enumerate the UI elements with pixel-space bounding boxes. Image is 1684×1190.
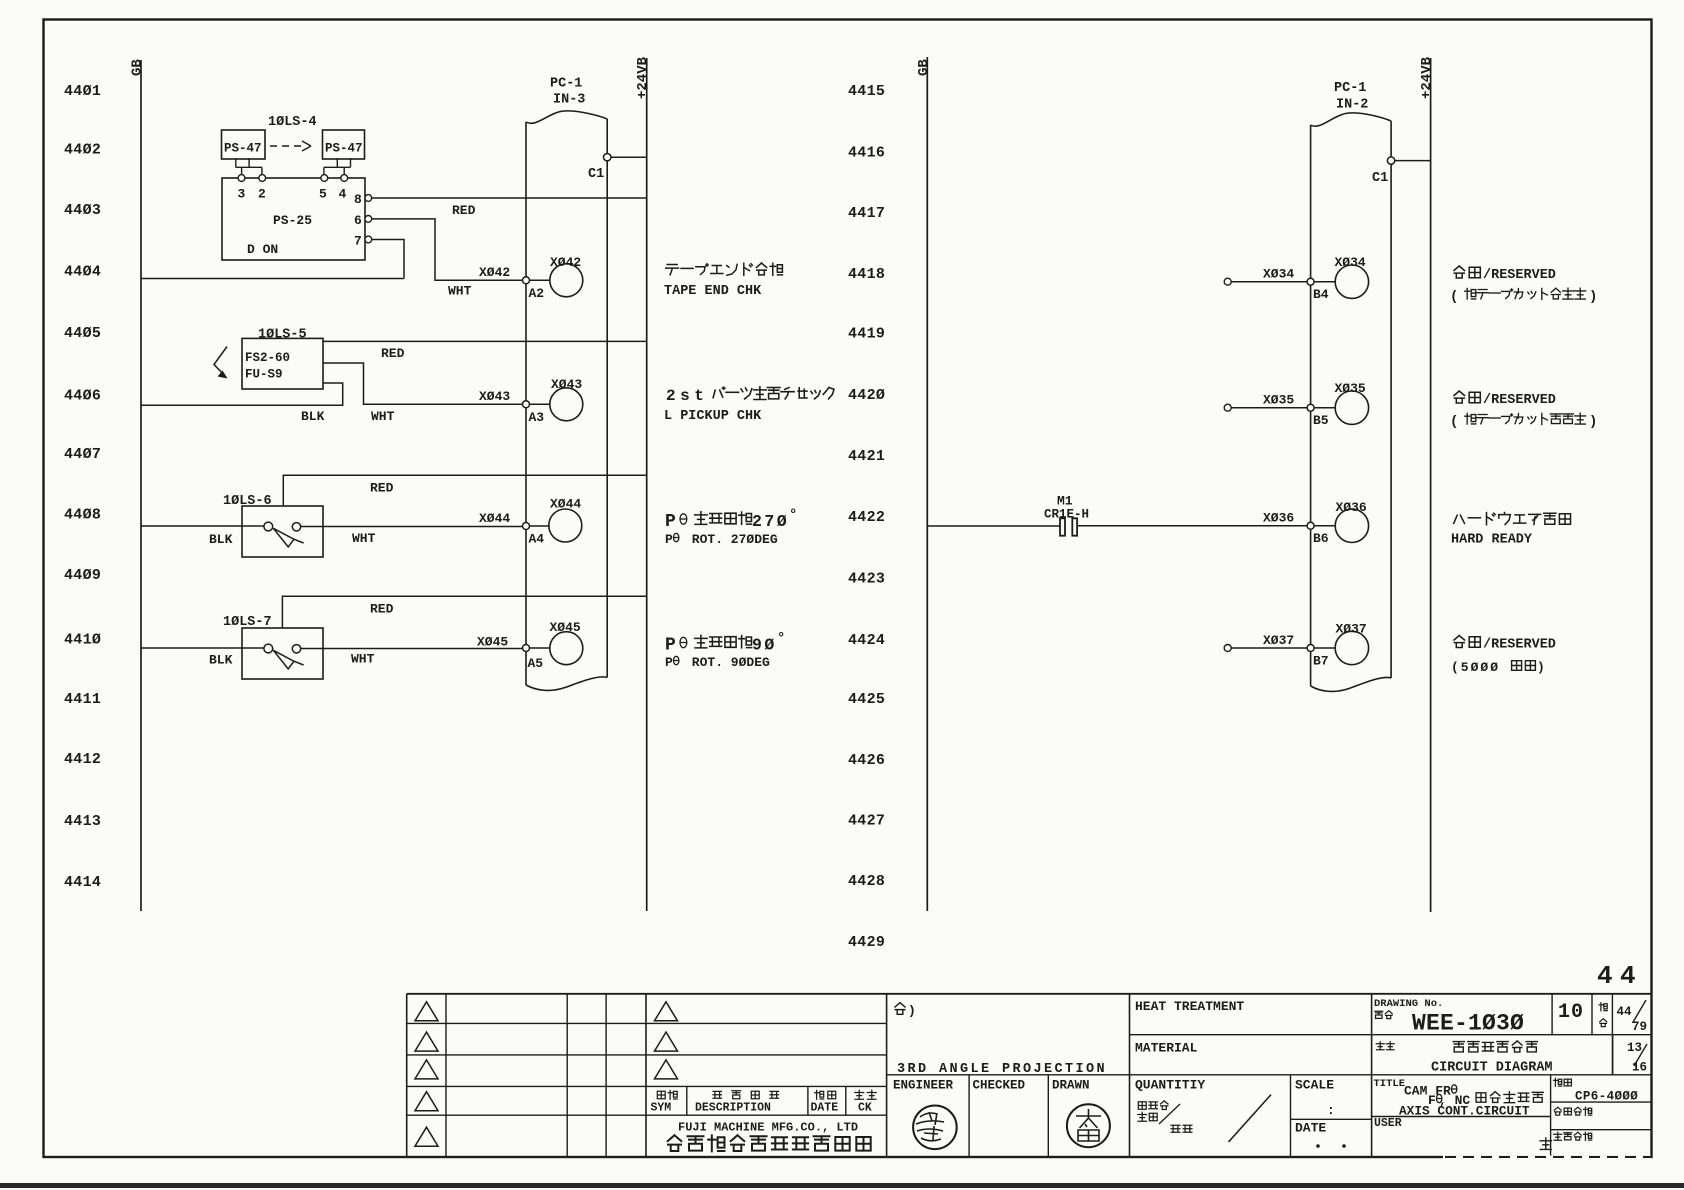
svg-text:FU-S9: FU-S9 — [245, 368, 283, 382]
indicator lamp X044 — [549, 509, 582, 542]
svg-text:16: 16 — [1632, 1061, 1647, 1075]
svg-text:ROT. 27ØDEG: ROT. 27ØDEG — [684, 532, 778, 547]
svg-text:TITLE: TITLE — [1374, 1078, 1406, 1090]
svg-text:4425: 4425 — [848, 691, 885, 708]
pin A2 on IN-3 — [523, 277, 530, 284]
wire contact M1 to pin B6 / indicator X036 — [1077, 525, 1307, 527]
svg-text:IN-2: IN-2 — [1336, 98, 1368, 113]
svg-text:CIRCUIT DIAGRAM: CIRCUIT DIAGRAM — [1431, 1061, 1553, 1076]
pin 3 of PS-25 — [238, 175, 245, 182]
svg-text:M1: M1 — [1057, 494, 1073, 509]
svg-text:13: 13 — [1627, 1041, 1642, 1055]
svg-text:8: 8 — [354, 192, 362, 207]
svg-text:B6: B6 — [1313, 531, 1329, 546]
svg-text:XØ45: XØ45 — [550, 620, 581, 635]
svg-text:27Ø: 27Ø — [752, 512, 789, 531]
pin C1 on IN-3 — [604, 154, 611, 161]
svg-text:D ON: D ON — [247, 242, 278, 257]
relay unit PS-25 box — [222, 178, 365, 260]
svg-text:WHT: WHT — [448, 284, 472, 299]
svg-text:XØ37: XØ37 — [1336, 622, 1367, 637]
svg-text:DRAWING No.: DRAWING No. — [1374, 998, 1443, 1010]
wire 10LS-5 to +24VB (RED) rung 4405 — [323, 340, 647, 342]
svg-text:IN-3: IN-3 — [553, 93, 585, 108]
svg-text:P: P — [665, 655, 673, 670]
annotation reserved (4418) JP — [1454, 266, 1465, 278]
svg-text:10: 10 — [1558, 1001, 1584, 1024]
svg-text:6: 6 — [354, 213, 362, 228]
svg-text:C1: C1 — [1372, 171, 1388, 186]
svg-text:1ØLS-5: 1ØLS-5 — [258, 328, 307, 343]
svg-text:44Ø1: 44Ø1 — [64, 83, 101, 100]
svg-text:4412: 4412 — [64, 751, 101, 768]
svg-text:44Ø4: 44Ø4 — [64, 264, 101, 281]
wire pin8 to +24VB (RED) — [372, 197, 647, 199]
svg-text:4429: 4429 — [848, 934, 885, 951]
engineer stamp — [913, 1106, 957, 1150]
svg-text:XØ43: XØ43 — [551, 377, 582, 392]
svg-text:XØ35: XØ35 — [1335, 381, 1366, 396]
svg-text:WHT: WHT — [351, 652, 375, 667]
svg-text:GB: GB — [130, 59, 146, 76]
svg-text:DESCRIPTION: DESCRIPTION — [695, 1102, 771, 1115]
svg-text:441Ø: 441Ø — [64, 632, 101, 649]
svg-text:XØ44: XØ44 — [550, 497, 581, 512]
svg-text:WHT: WHT — [352, 531, 376, 546]
svg-text:QUANTITIY: QUANTITIY — [1135, 1078, 1205, 1093]
svg-text:(: ( — [1450, 414, 1458, 430]
svg-text:B5: B5 — [1313, 413, 1329, 428]
svg-text:PC-1: PC-1 — [1334, 81, 1366, 96]
wire rung 4406 BLK from GB — [141, 383, 343, 405]
svg-text:44: 44 — [1617, 1005, 1633, 1019]
cam actuator arrow for 10LS-5 — [214, 347, 227, 378]
svg-text:DATE: DATE — [811, 1102, 839, 1115]
svg-text:B4: B4 — [1313, 287, 1329, 302]
svg-text:DRAWN: DRAWN — [1052, 1079, 1090, 1093]
svg-text:XØ36: XØ36 — [1336, 500, 1367, 515]
svg-text:4: 4 — [339, 187, 347, 202]
svg-text:CHECKED: CHECKED — [973, 1079, 1026, 1093]
quantity JP kosuu — [1138, 1112, 1147, 1121]
svg-text:(: ( — [1450, 289, 1458, 305]
svg-text:4: 4 — [1597, 961, 1613, 991]
net GB middle bus — [926, 57, 928, 911]
bunrui bangou JP — [1554, 1107, 1561, 1115]
wire rung 4404 from GB — [141, 278, 404, 280]
svg-text:ENGINEER: ENGINEER — [893, 1079, 954, 1093]
svg-text:): ) — [1589, 414, 1597, 430]
svg-text:HEAT TREATMENT: HEAT TREATMENT — [1135, 999, 1244, 1014]
svg-text:44Ø2: 44Ø2 — [64, 142, 101, 159]
svg-text:XØ42: XØ42 — [550, 255, 581, 270]
svg-text:4411: 4411 — [64, 691, 101, 708]
pin A3 on IN-3 — [523, 401, 530, 408]
svg-text:): ) — [908, 1004, 916, 1019]
svg-text:CP6-4ØØØ: CP6-4ØØØ — [1575, 1090, 1638, 1104]
svg-text:4417: 4417 — [848, 205, 885, 222]
PS-47 right connector tab — [324, 158, 351, 174]
limit switch PS-47 (right) — [323, 130, 365, 159]
quantity big slash — [1229, 1095, 1272, 1142]
indicator lamp X042 — [550, 264, 583, 297]
svg-text:/RESERVED: /RESERVED — [1483, 393, 1556, 408]
rev header DESCRIPTION (JP+EN) — [713, 1091, 722, 1098]
pin A5 on IN-3 — [523, 645, 530, 652]
annotation reserved (4420) JP — [1454, 391, 1465, 403]
svg-text:B7: B7 — [1313, 654, 1329, 669]
limit switch PS-47 (left) — [222, 130, 266, 159]
rev header CK (JP+EN) — [855, 1090, 864, 1099]
kishu cell JP + CP6-4000 — [1554, 1078, 1562, 1086]
net GB left bus — [140, 60, 142, 911]
pin 5 of PS-25 — [321, 175, 328, 182]
svg-text:FUJI MACHINE MFG.CO., LTD: FUJI MACHINE MFG.CO., LTD — [678, 1121, 858, 1135]
svg-text:GB: GB — [916, 59, 932, 76]
svg-text:XØ34: XØ34 — [1263, 267, 1294, 282]
svg-text:4414: 4414 — [64, 874, 101, 891]
svg-text:442Ø: 442Ø — [848, 387, 885, 404]
wire 10LS-5 WHT to X043 — [323, 363, 523, 404]
svg-text:SYM: SYM — [651, 1102, 672, 1115]
svg-text:4423: 4423 — [848, 571, 885, 588]
svg-text:4: 4 — [1620, 961, 1636, 991]
svg-text:CR1E-H: CR1E-H — [1044, 508, 1089, 522]
revision triangles column A — [415, 1002, 438, 1021]
title JP denki kairo senzu — [1453, 1042, 1464, 1052]
wire pin7 down to rung 4404 — [372, 240, 404, 279]
svg-text:2: 2 — [258, 187, 266, 202]
svg-text:RED: RED — [370, 602, 394, 617]
svg-text:XØ45: XØ45 — [477, 635, 508, 650]
contact M1 CR1E-H — [1060, 518, 1065, 535]
svg-text:L PICKUP CHK: L PICKUP CHK — [664, 409, 762, 424]
pin C1 on IN-2 — [1387, 157, 1394, 164]
title block grid — [407, 993, 1652, 995]
svg-text:3: 3 — [238, 187, 246, 202]
svg-text:BLK: BLK — [209, 532, 233, 547]
wire A3 to indicator X043 — [530, 403, 550, 405]
wire A5 to indicator X045 — [530, 647, 550, 649]
svg-text:XØ37: XØ37 — [1263, 633, 1294, 648]
svg-text:9Ø: 9Ø — [752, 636, 777, 655]
drawn stamp — [1067, 1104, 1110, 1147]
connector PC-1 IN-2 body — [1311, 113, 1392, 692]
svg-text:DATE: DATE — [1295, 1121, 1326, 1136]
scan artifact: dashed bottom border right — [1443, 1156, 1651, 1159]
indicator lamp X045 — [550, 632, 583, 665]
svg-text:P: P — [665, 512, 676, 532]
svg-text:44Ø3: 44Ø3 — [64, 202, 101, 219]
svg-text:°: ° — [777, 631, 785, 647]
svg-text:(5ØØØ: (5ØØØ — [1451, 660, 1500, 675]
svg-text:USER: USER — [1374, 1117, 1402, 1130]
svg-text:44Ø7: 44Ø7 — [64, 446, 101, 463]
svg-text:4421: 4421 — [848, 448, 885, 465]
wire A2 to indicator X042 — [530, 279, 550, 281]
svg-text:XØ35: XØ35 — [1263, 393, 1294, 408]
svg-text:/RESERVED: /RESERVED — [1483, 638, 1556, 653]
wire / pin B4 / indicator lamp X034 — [1224, 278, 1231, 285]
wire rung 4410 BLK from GB — [141, 647, 264, 649]
svg-text:+24VB: +24VB — [635, 56, 651, 99]
pin A4 on IN-3 — [523, 523, 530, 530]
svg-text:P: P — [665, 636, 676, 656]
wire 10LS-7 WHT to X045 — [301, 648, 523, 650]
svg-text:CK: CK — [858, 1102, 872, 1115]
svg-text:4424: 4424 — [848, 632, 885, 649]
svg-text:A3: A3 — [529, 410, 545, 425]
wire / pin B5 / indicator lamp X035 — [1224, 404, 1231, 411]
item name JP (hinmei) — [1376, 1042, 1384, 1050]
svg-text:79: 79 — [1632, 1020, 1647, 1034]
page header JP (pages) — [1599, 1003, 1607, 1011]
indicator lamp X043 — [550, 388, 583, 421]
svg-text:4416: 4416 — [848, 145, 885, 162]
svg-text:AXIS CONT.CIRCUIT: AXIS CONT.CIRCUIT — [1399, 1104, 1530, 1119]
revision triangles column SYM — [655, 1002, 678, 1021]
svg-text:XØ42: XØ42 — [479, 265, 510, 280]
svg-text:SCALE: SCALE — [1295, 1078, 1334, 1093]
limit switch 10LS-7 — [242, 628, 323, 679]
pin 7 of PS-25 — [365, 236, 372, 243]
svg-text:4419: 4419 — [848, 326, 885, 343]
annotation tape end check (JP) — [666, 265, 679, 275]
dashed arrow between PS-47 units — [270, 145, 303, 147]
svg-text:2st: 2st — [666, 387, 708, 405]
svg-text:A5: A5 — [528, 656, 544, 671]
svg-text:A4: A4 — [529, 532, 545, 547]
wire C1 to +24VB (right) — [1395, 160, 1431, 162]
annotation reserved (4424) JP — [1454, 636, 1465, 648]
svg-text:PS-47: PS-47 — [224, 142, 262, 156]
svg-text:): ) — [1589, 289, 1597, 305]
PS-47 left connector tab — [236, 158, 262, 174]
svg-text:PC-1: PC-1 — [550, 77, 582, 92]
quantity JP goukei — [1171, 1125, 1180, 1132]
svg-text:C1: C1 — [588, 167, 604, 182]
svg-text:3RD ANGLE PROJECTION: 3RD ANGLE PROJECTION — [897, 1062, 1107, 1077]
svg-text:44Ø5: 44Ø5 — [64, 325, 101, 342]
svg-text:A2: A2 — [529, 286, 545, 301]
wire 10LS-7 RED to +24VB rung 4409 — [282, 596, 646, 628]
svg-text:XØ44: XØ44 — [479, 511, 510, 526]
svg-text:ROT. 9ØDEG: ROT. 9ØDEG — [684, 655, 770, 670]
svg-text:5: 5 — [319, 187, 327, 202]
svg-text:RED: RED — [452, 203, 476, 218]
wire 10LS-6 WHT to X044 — [301, 526, 523, 528]
svg-text:HARD READY: HARD READY — [1451, 533, 1533, 548]
svg-text:4427: 4427 — [848, 813, 885, 830]
svg-text:4426: 4426 — [848, 752, 885, 769]
dono JP — [1540, 1138, 1551, 1150]
svg-text:+24VB: +24VB — [1419, 56, 1435, 99]
wire C1 to +24VB — [611, 156, 647, 158]
wire A4 to indicator X044 — [530, 525, 550, 527]
svg-text:44Ø9: 44Ø9 — [64, 567, 101, 584]
svg-text:BLK: BLK — [301, 409, 325, 424]
wire 10LS-6 RED to +24VB rung 4407 — [283, 475, 646, 506]
svg-text:BLK: BLK — [209, 653, 233, 668]
svg-text:°: ° — [789, 508, 797, 524]
svg-text:PS-25: PS-25 — [273, 213, 312, 228]
svg-text:XØ36: XØ36 — [1263, 511, 1294, 526]
pin 8 of PS-25 — [365, 195, 372, 202]
rev header SYM (JP+EN) — [657, 1091, 665, 1099]
svg-text:TAPE END CHK: TAPE END CHK — [664, 284, 762, 299]
svg-text:4422: 4422 — [848, 509, 885, 526]
rev header DATE (JP+EN) — [815, 1090, 824, 1099]
note cell JP — [895, 1003, 905, 1015]
svg-text:7: 7 — [354, 234, 362, 249]
svg-text:44Ø8: 44Ø8 — [64, 507, 101, 524]
svg-text::: : — [1327, 1103, 1335, 1118]
svg-text:FS2-60: FS2-60 — [245, 351, 290, 365]
svg-text:MATERIAL: MATERIAL — [1135, 1041, 1198, 1056]
svg-text:1ØLS-4: 1ØLS-4 — [268, 115, 317, 130]
wire rung 4408 BLK from GB — [141, 525, 264, 527]
sensor 10LS-5 box (FS2-60 FU-S9) — [242, 338, 323, 389]
svg-text:4418: 4418 — [848, 266, 885, 283]
svg-text:/RESERVED: /RESERVED — [1483, 268, 1556, 283]
pin 6 of PS-25 — [365, 216, 372, 223]
pin 2 of PS-25 — [259, 175, 266, 182]
svg-text:4413: 4413 — [64, 813, 101, 830]
company name JP (Fuji Kikai Seizou KK) — [668, 1135, 682, 1151]
svg-text:RED: RED — [370, 481, 394, 496]
svg-text:XØ43: XØ43 — [479, 389, 510, 404]
svg-text:44Ø6: 44Ø6 — [64, 388, 101, 405]
annotation hardware normal JP — [1454, 515, 1465, 523]
wire pin6 to X042 — [372, 219, 523, 280]
svg-text:4415: 4415 — [848, 83, 885, 100]
svg-text:PS-47: PS-47 — [325, 142, 363, 156]
connector PC-1 IN-3 body — [526, 111, 607, 691]
net +24VB right bus — [1430, 58, 1432, 912]
pin 4 of PS-25 — [341, 175, 348, 182]
svg-text:WHT: WHT — [371, 409, 395, 424]
svg-text:): ) — [1537, 660, 1545, 675]
svg-text:4428: 4428 — [848, 873, 885, 890]
wire / pin B7 / indicator lamp X037 — [1224, 645, 1231, 652]
seisan bangou JP — [1554, 1132, 1562, 1140]
svg-text:WEE-1Ø3Ø: WEE-1Ø3Ø — [1412, 1011, 1524, 1037]
wire rung 4422 from GB to contact M1 — [927, 525, 1060, 527]
svg-text:RED: RED — [381, 346, 405, 361]
limit switch 10LS-6 — [242, 506, 323, 557]
quantity JP ichidai-bun — [1138, 1102, 1146, 1110]
net +24VB left bus — [646, 58, 648, 911]
svg-text:XØ34: XØ34 — [1335, 255, 1366, 270]
svg-text:P: P — [665, 532, 673, 547]
